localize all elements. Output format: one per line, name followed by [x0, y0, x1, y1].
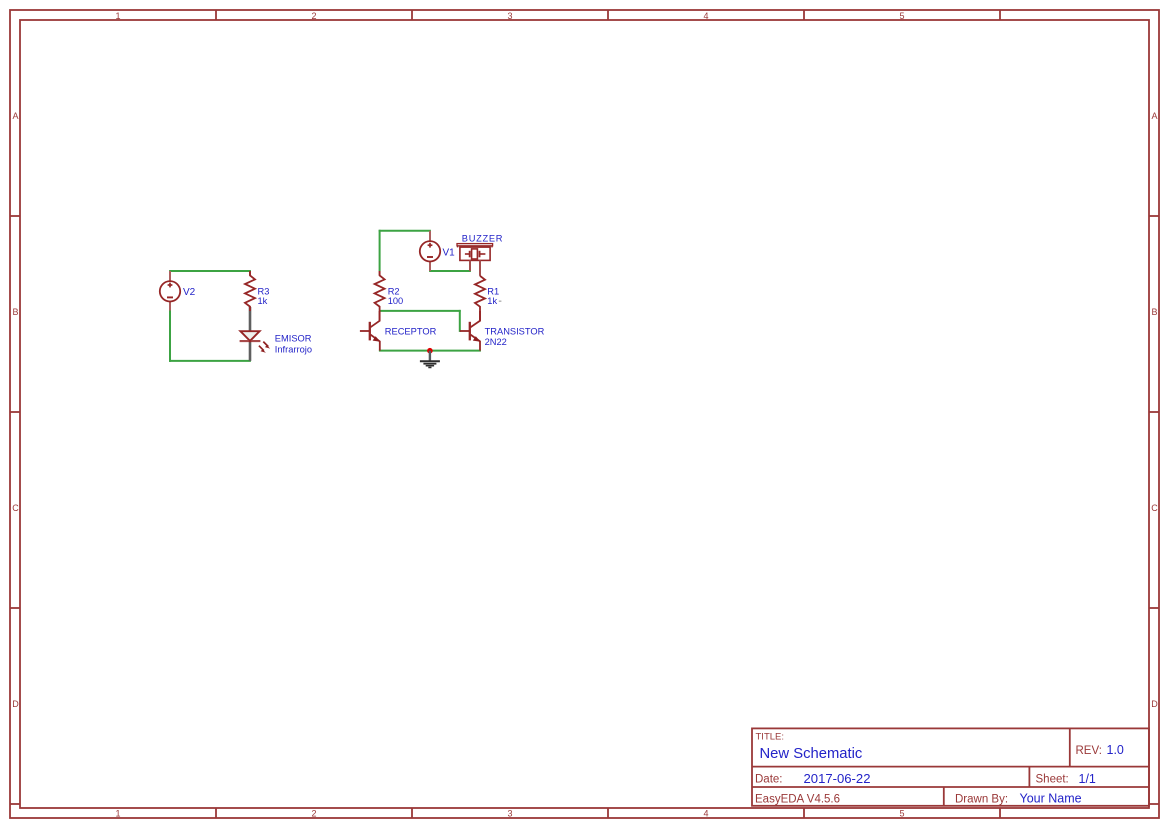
- wire vertical to base: [459, 310, 461, 332]
- buzzer LS1: [457, 244, 493, 261]
- wire gray R3 to LED: [249, 307, 252, 332]
- LED EMISOR (infrared emitter diode): [240, 331, 271, 353]
- svg-text:EasyEDA V4.5.6: EasyEDA V4.5.6: [755, 794, 840, 806]
- svg-text:4: 4: [703, 11, 708, 21]
- svg-text:TRANSISTOR: TRANSISTOR: [485, 326, 545, 336]
- svg-text:D: D: [1151, 699, 1158, 709]
- resistor R2: [379, 271, 381, 275]
- ground: [420, 351, 440, 368]
- svg-text:C: C: [12, 503, 19, 513]
- svg-text:Drawn By:: Drawn By:: [955, 794, 1008, 806]
- wire R1 bottom to Q2 collector: [479, 311, 481, 321]
- wire left vertical (V2 minus down): [169, 310, 171, 362]
- resistor R1: [475, 276, 485, 311]
- svg-text:A: A: [12, 111, 18, 121]
- svg-text:2017-06-22: 2017-06-22: [804, 771, 871, 786]
- svg-text:1k: 1k: [258, 296, 268, 306]
- svg-text:C: C: [1151, 503, 1158, 513]
- wire V1 bottom to buzzer: [429, 270, 471, 272]
- transistor Q2 TRANSISTOR 2N22: [460, 311, 481, 351]
- svg-text:2: 2: [311, 809, 316, 819]
- wire R2 bottom to Q1 collector: [379, 311, 381, 321]
- svg-text:New Schematic: New Schematic: [760, 746, 863, 762]
- svg-text:EMISOR: EMISOR: [275, 333, 312, 343]
- svg-text:1: 1: [115, 809, 120, 819]
- svg-text:B: B: [12, 307, 18, 317]
- svg-text:R2: R2: [388, 286, 400, 296]
- svg-text:R3: R3: [258, 286, 270, 296]
- transistor Q1 RECEPTOR: [360, 311, 381, 351]
- voltage source V2: [160, 271, 180, 311]
- svg-text:5: 5: [899, 809, 904, 819]
- title block: [752, 728, 1149, 805]
- wire top left (V2 to R3): [169, 270, 251, 272]
- stray dash after 1k: [499, 301, 502, 302]
- svg-text:5: 5: [899, 11, 904, 21]
- svg-text:Date:: Date:: [755, 774, 783, 786]
- svg-text:REV:: REV:: [1076, 745, 1102, 757]
- svg-text:2N22: 2N22: [485, 337, 507, 347]
- wire left vertical (down to R2): [379, 230, 381, 271]
- svg-text:V2: V2: [183, 287, 196, 298]
- svg-text:RECEPTOR: RECEPTOR: [385, 326, 437, 336]
- svg-text:1/1: 1/1: [1079, 772, 1096, 786]
- svg-text:1.0: 1.0: [1107, 743, 1124, 757]
- svg-text:B: B: [1151, 307, 1157, 317]
- wire gray LED to bottom: [249, 341, 252, 361]
- svg-text:Your Name: Your Name: [1020, 792, 1082, 806]
- svg-text:Infrarrojo: Infrarrojo: [275, 344, 312, 354]
- svg-text:A: A: [1151, 111, 1157, 121]
- svg-text:1k: 1k: [487, 296, 497, 306]
- svg-text:1: 1: [115, 11, 120, 21]
- voltage source V1: [420, 231, 440, 271]
- svg-text:2: 2: [311, 11, 316, 21]
- svg-text:R1: R1: [487, 286, 499, 296]
- svg-text:3: 3: [507, 11, 512, 21]
- svg-text:4: 4: [703, 809, 708, 819]
- wire top (R2 to V1): [379, 230, 431, 232]
- resistor R3: [249, 271, 251, 275]
- wire bottom (emitters): [379, 350, 481, 352]
- svg-text:V1: V1: [443, 247, 456, 258]
- svg-text:D: D: [12, 699, 19, 709]
- wire middle horizontal (collector to base of Q2): [380, 310, 461, 312]
- svg-text:100: 100: [388, 296, 404, 306]
- junction dot: [427, 348, 433, 354]
- wire bottom left: [169, 360, 251, 362]
- svg-text:BUZZER: BUZZER: [462, 233, 503, 243]
- buzzer pins: [469, 260, 471, 271]
- svg-text:3: 3: [507, 809, 512, 819]
- svg-text:TITLE:: TITLE:: [756, 732, 785, 743]
- svg-text:Sheet:: Sheet:: [1036, 774, 1069, 786]
